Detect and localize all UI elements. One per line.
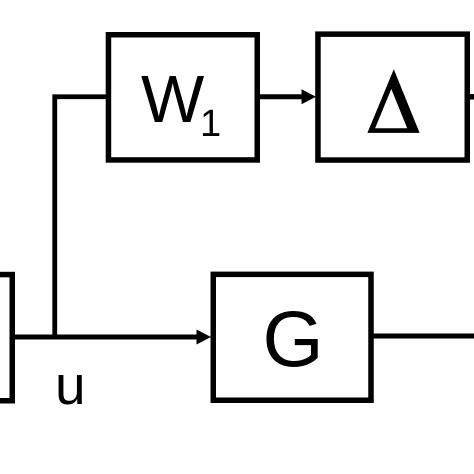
arrowhead into Delta [302,89,317,104]
svg-text:G: G [263,295,324,383]
wire Delta output stub [469,94,474,100]
block P (partial, left edge) [0,275,12,401]
svg-text:W: W [141,62,205,137]
svg-text:1: 1 [200,103,221,145]
wire u (P output to G input) [14,335,198,340]
label Delta (uncertainty block symbol) [367,69,419,133]
wire G output [373,334,474,339]
block W1 [108,35,257,160]
svg-text:u: u [55,354,86,416]
wire W1 output to Delta input [259,94,303,99]
arrowhead into G [197,330,212,345]
wire u riser (branch from u up to W1 input) [55,97,106,339]
block Delta [318,34,467,160]
block G [213,274,371,400]
